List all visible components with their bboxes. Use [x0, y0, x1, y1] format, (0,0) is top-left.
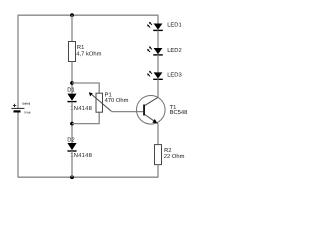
wire node to P1 top [72, 83, 99, 93]
wire R2 to bottom rail [157, 165, 159, 178]
wire R1 to D1 [71, 62, 73, 94]
svg-text:R2: R2 [164, 147, 171, 154]
transistor T1 BC548 [137, 96, 188, 125]
wire left rail lower (battery negative lead) [17, 113, 19, 178]
svg-text:22 Ohm: 22 Ohm [164, 153, 185, 160]
svg-text:D1: D1 [67, 87, 74, 93]
junction dot: D2 branch to bottom rail [70, 175, 74, 179]
svg-text:LED2: LED2 [167, 47, 182, 54]
diode D2 1N4148 [67, 136, 92, 159]
svg-text:D2: D2 [67, 136, 74, 143]
wire R1 branch from top rail [71, 15, 73, 41]
junction dot: node between D1 and D2 / P1 bottom branch [70, 122, 74, 126]
svg-text:BC548: BC548 [170, 109, 188, 116]
svg-text:LED3: LED3 [167, 71, 182, 78]
svg-text:Batterij: Batterij [22, 102, 30, 106]
svg-text:1N4148: 1N4148 [70, 152, 92, 159]
LED1 [147, 22, 182, 31]
resistor R2 [155, 145, 185, 165]
diode D1 1N4148 [67, 87, 92, 112]
wire D2 to bottom rail [71, 151, 73, 177]
wire LED1 to LED2 [157, 30, 159, 48]
svg-text:R1: R1 [77, 45, 84, 51]
LED2 [147, 46, 182, 55]
wire emitter to R2 [157, 124, 159, 145]
svg-text:4,7 kOhm: 4,7 kOhm [76, 51, 101, 58]
wire bottom rail [18, 176, 159, 178]
wire LED chain top [157, 15, 159, 23]
junction dot: top rail to R1 branch [70, 13, 74, 17]
wire D1 to D2 [71, 102, 73, 143]
resistor R1 [69, 42, 102, 62]
junction dot: node above D1 / P1 top branch [70, 81, 74, 85]
wire left rail upper (battery positive lead) [17, 15, 19, 108]
LED3 [147, 71, 182, 80]
svg-text:470 Ohm: 470 Ohm [105, 97, 129, 104]
wire LED2 to LED3 [157, 55, 159, 73]
svg-text:LED1: LED1 [167, 23, 182, 29]
wire top rail [18, 14, 159, 16]
svg-text:1N4148: 1N4148 [70, 105, 92, 112]
wire LED3 to collector [157, 79, 159, 97]
battery B1 [11, 102, 30, 115]
wire P1 bottom to node [72, 112, 99, 123]
potentiometer P1 470 Ohm [89, 92, 129, 112]
wire wiper to transistor base [111, 111, 143, 113]
svg-text:9 Volt: 9 Volt [24, 111, 31, 115]
